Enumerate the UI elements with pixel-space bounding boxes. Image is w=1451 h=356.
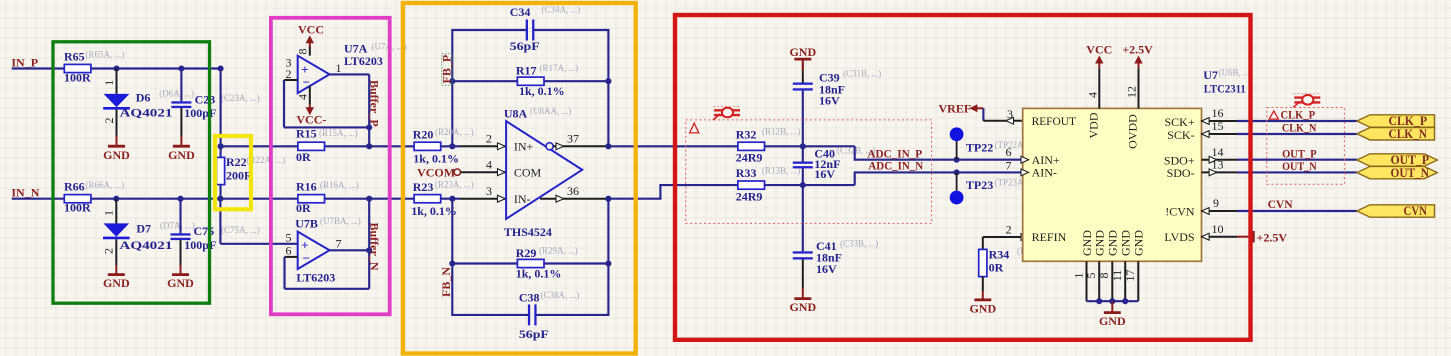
capacitor C40 12nF 16V: [802, 146, 804, 161]
svg-text:8: 8: [296, 49, 310, 55]
svg-text:TP23: TP23: [966, 178, 993, 192]
node junction C40 bottom: [800, 182, 806, 188]
node junction R23/FBN column: [449, 196, 455, 202]
svg-text:(C34A, ...): (C34A, ...): [542, 5, 581, 15]
op-amp U7B LT6203 triangle: [298, 232, 330, 269]
diode D7 AQ4021: [115, 199, 117, 224]
U7A output wire: [330, 73, 370, 75]
svg-text:R65: R65: [64, 49, 85, 63]
capacitor C41 18nF 16V: [802, 185, 804, 251]
dashed blanket CLK: [1267, 108, 1345, 185]
node junction R22/R15 tap: [218, 143, 224, 149]
svg-text:U8A: U8A: [504, 107, 528, 121]
IC U7 LTC2311 body: [1023, 108, 1202, 261]
svg-text:12: 12: [1125, 86, 1139, 98]
svg-text:AQ4021: AQ4021: [119, 238, 172, 252]
dashed blanket ADC: [686, 120, 932, 223]
power VCC U7A: [309, 39, 311, 47]
svg-text:VREF: VREF: [939, 101, 972, 115]
svg-text:100R: 100R: [64, 71, 91, 85]
node junction U7B output: [366, 247, 372, 253]
svg-text:(R29A, ...): (R29A, ...): [539, 246, 578, 256]
node junction IN_P/R22 column: [218, 65, 224, 71]
svg-text:4: 4: [486, 157, 492, 171]
ground for D6: [116, 136, 118, 146]
svg-text:CVN: CVN: [1404, 204, 1428, 218]
node junction U7A out/R15: [366, 143, 372, 149]
node junction FB_N right: [605, 260, 611, 266]
wire R20 to IN+ pin: [441, 145, 460, 147]
svg-text:24R9: 24R9: [736, 190, 763, 204]
U8A output 37 wire: [553, 145, 608, 147]
svg-text:1k, 0.1%: 1k, 0.1%: [519, 84, 565, 98]
port OUT_N: [1357, 166, 1437, 178]
svg-text:(C33B, ...): (C33B, ...): [840, 238, 878, 248]
svg-text:(C23A, ...): (C23A, ...): [221, 93, 260, 103]
svg-text:GND: GND: [1106, 230, 1120, 256]
svg-text:5: 5: [1084, 273, 1098, 279]
ground for C23: [180, 136, 182, 146]
ground for U7: [1111, 301, 1113, 312]
node junction R20/FBP column: [449, 143, 455, 149]
svg-text:CLK_N: CLK_N: [1389, 127, 1428, 141]
svg-text:6: 6: [1006, 145, 1012, 159]
svg-text:8: 8: [1097, 273, 1111, 279]
svg-text:(R16A, ...): (R16A, ...): [320, 180, 359, 190]
svg-text:VCC-: VCC-: [296, 112, 326, 126]
node junction IN_P/C23: [178, 65, 184, 71]
op-amp U7A LT6203 triangle: [298, 56, 330, 93]
wire ADC_IN_P jog: [855, 146, 1023, 159]
svg-text:IN_N: IN_N: [11, 186, 39, 200]
U7 pin 15 SCK-: [1202, 133, 1238, 135]
resistor R22 200R: [216, 157, 224, 184]
capacitor C34 56pF: [526, 20, 528, 41]
svg-text:(R15A, ...): (R15A, ...): [319, 128, 358, 138]
svg-text:56pF: 56pF: [510, 39, 540, 53]
magenta group box: [271, 18, 390, 315]
wire IN_N row: [12, 198, 64, 200]
svg-text:2: 2: [486, 132, 492, 146]
U7 pin 12 OVDD pin: [1138, 68, 1140, 108]
svg-text:GND: GND: [103, 276, 130, 290]
svg-text:OVDD: OVDD: [1126, 114, 1140, 149]
capacitor C75 100pF: [179, 199, 181, 234]
node junction FB_N left: [449, 260, 455, 266]
svg-text:15: 15: [1212, 119, 1224, 133]
svg-text:37: 37: [567, 132, 579, 146]
svg-text:16: 16: [1212, 106, 1224, 120]
port CVN: [1357, 205, 1435, 217]
svg-text:R32: R32: [736, 127, 757, 141]
wire R23 to IN- pin: [441, 198, 460, 200]
svg-text:GND: GND: [1119, 230, 1133, 256]
U8A output 37 bubble: [546, 143, 553, 150]
node junction IN_N/C75: [177, 196, 183, 202]
svg-text:C23: C23: [195, 92, 216, 106]
U8A pin 4 arrow: [498, 169, 506, 176]
test point TP22: [954, 157, 960, 163]
svg-text:16V: 16V: [814, 167, 835, 181]
svg-text:+2.5V: +2.5V: [1257, 231, 1288, 245]
wire R33 to C40: [765, 184, 855, 186]
diff pair directive icon CLK: [1293, 94, 1321, 108]
svg-text:2: 2: [1006, 222, 1012, 236]
svg-text:−: −: [303, 250, 310, 265]
yellow group box: [215, 136, 251, 209]
red group box: [675, 15, 1251, 340]
svg-text:+2.5V: +2.5V: [1122, 43, 1153, 57]
resistor R17 1k: [452, 80, 517, 82]
U7 pin 7 arrow: [1021, 169, 1029, 176]
U7 pin 3 REFOUT arrow: [1006, 117, 1014, 124]
wire ADC_IN_N jog: [855, 172, 1023, 185]
U7B output wire: [330, 249, 370, 251]
svg-text:LT6203: LT6203: [296, 270, 335, 284]
svg-text:VCC: VCC: [298, 22, 324, 36]
svg-text:0R: 0R: [989, 260, 1004, 274]
red triangle marker ADC: [690, 123, 699, 133]
svg-text:LTC2311: LTC2311: [1204, 81, 1246, 95]
svg-text:0R: 0R: [296, 150, 311, 164]
svg-text:VCOM: VCOM: [417, 165, 455, 179]
node junction out36: [605, 196, 611, 202]
red triangle marker CLK: [1269, 111, 1278, 119]
ground for R34: [982, 291, 984, 300]
svg-text:1k, 0.1%: 1k, 0.1%: [411, 204, 457, 218]
wire R15 to R20: [369, 145, 414, 147]
svg-text:(R17A, ...): (R17A, ...): [540, 63, 579, 73]
svg-text:GND: GND: [1093, 230, 1107, 256]
U7 pin 16 SCK+: [1202, 120, 1238, 122]
node junction C40 top: [800, 143, 806, 149]
port CLK_P: [1357, 115, 1435, 127]
svg-text:3: 3: [1007, 107, 1013, 121]
svg-text:SDO-: SDO-: [1167, 166, 1195, 180]
node junction FB_P right: [605, 78, 611, 84]
svg-text:REFIN: REFIN: [1032, 230, 1067, 244]
wire C34 top row: [452, 30, 608, 146]
svg-text:R29: R29: [516, 246, 537, 260]
svg-text:3: 3: [486, 184, 492, 198]
node junction IN_N/D7: [113, 196, 119, 202]
svg-text:0R: 0R: [296, 201, 311, 215]
wire R15 tap: [221, 145, 298, 147]
port OUT_P: [1357, 154, 1437, 166]
svg-text:100R: 100R: [64, 201, 91, 215]
svg-text:1: 1: [102, 210, 116, 216]
svg-text:GND: GND: [168, 148, 195, 162]
svg-text:(D7A, ...): (D7A, ...): [160, 221, 195, 231]
svg-text:(R65A, ...): (R65A, ...): [86, 50, 125, 60]
svg-text:VCC: VCC: [1086, 43, 1112, 57]
svg-text:IN+: IN+: [514, 140, 534, 154]
ground for C75: [180, 265, 182, 275]
ground below C41: [802, 288, 804, 299]
svg-text:LVDS: LVDS: [1164, 230, 1194, 244]
node junction FB_P left: [449, 78, 455, 84]
ground above C39: [802, 59, 804, 70]
wire out36 step: [608, 185, 738, 199]
svg-text:CLK_P: CLK_P: [1281, 107, 1316, 121]
U7B pin 6 wire + feedback: [285, 256, 298, 258]
svg-text:100pF: 100pF: [184, 238, 216, 252]
op-amp U8A THS4524 triangle: [506, 121, 582, 219]
U7 bottom GND pins: [1086, 261, 1088, 301]
svg-text:10: 10: [1212, 222, 1224, 236]
U7 pin 4 VDD pin: [1098, 68, 1100, 108]
svg-text:11: 11: [1110, 270, 1124, 282]
svg-text:VDD: VDD: [1086, 112, 1100, 138]
svg-text:SCK-: SCK-: [1167, 128, 1194, 142]
U7A pin 8 power pin: [309, 47, 311, 56]
svg-text:D6: D6: [136, 90, 151, 104]
capacitor C38 56pF: [528, 304, 530, 325]
power VCC at U7: [1098, 60, 1100, 69]
svg-text:(U8AA, ...): (U8AA, ...): [530, 106, 571, 116]
svg-text:(R23A, ...): (R23A, ...): [435, 179, 474, 189]
net label FB_P: [442, 54, 453, 86]
svg-text:6: 6: [286, 244, 292, 258]
svg-text:(C38A, ...): (C38A, ...): [541, 290, 580, 300]
svg-text:16V: 16V: [819, 94, 840, 108]
resistor R34 0R: [983, 236, 1023, 238]
svg-text:GND: GND: [789, 45, 816, 59]
svg-text:R66: R66: [64, 180, 85, 194]
svg-text:GND: GND: [969, 302, 996, 316]
svg-text:4: 4: [296, 94, 310, 100]
svg-text:R16: R16: [296, 180, 317, 194]
port CLK_N: [1357, 128, 1435, 140]
U7 pin 2 REFIN arrow: [1021, 234, 1029, 241]
U7 pin 6 arrow: [1021, 156, 1029, 163]
U7 pin 14 SDO+: [1202, 159, 1238, 161]
svg-text:AQ4021: AQ4021: [120, 106, 173, 120]
resistor R16 0R: [298, 195, 325, 203]
svg-text:U7B: U7B: [295, 217, 318, 231]
svg-text:Buffer_N: Buffer_N: [367, 223, 381, 271]
resistor R15 0R: [325, 145, 369, 147]
svg-text:TP22: TP22: [966, 140, 993, 154]
svg-text:LT6203: LT6203: [344, 54, 383, 68]
svg-text:THS4524: THS4524: [504, 225, 552, 239]
resistor R65: [64, 64, 91, 72]
svg-text:R22: R22: [226, 155, 247, 169]
svg-text:1k, 0.1%: 1k, 0.1%: [516, 267, 562, 281]
capacitor C23 100pF: [180, 69, 182, 102]
test point TP23: [954, 169, 960, 175]
svg-text:CLK_N: CLK_N: [1282, 120, 1317, 134]
diode D6 AQ4021: [116, 69, 118, 94]
svg-text:1k, 0.1%: 1k, 0.1%: [413, 152, 459, 166]
node junction IN_P/D6: [113, 65, 119, 71]
svg-text:(R66A, ...): (R66A, ...): [86, 180, 125, 190]
wire R32 to C40: [765, 145, 855, 147]
U7A pin 2 wire + feedback: [284, 79, 298, 81]
resistor R66: [64, 195, 91, 203]
node junction R16/U7B out column: [366, 196, 372, 202]
green group box: [53, 42, 210, 303]
svg-text:36: 36: [567, 184, 579, 198]
svg-text:OUT_N: OUT_N: [1282, 159, 1317, 173]
node junction U7A feedback: [366, 124, 372, 130]
svg-text:U7: U7: [1203, 68, 1218, 82]
svg-text:9: 9: [1213, 196, 1219, 210]
wire R22 column bottom: [219, 185, 221, 199]
svg-text:D7: D7: [136, 221, 151, 235]
U7 pin 9 !CVN: [1202, 210, 1238, 212]
svg-text:R15: R15: [296, 127, 317, 141]
svg-text:24R9: 24R9: [736, 151, 763, 165]
svg-text:C34: C34: [510, 5, 531, 19]
svg-text:!CVN: !CVN: [1165, 205, 1195, 219]
svg-text:CVN: CVN: [1268, 197, 1293, 211]
svg-text:IN_P: IN_P: [11, 55, 38, 69]
svg-text:IN-: IN-: [514, 192, 531, 206]
svg-text:(C75A, ...): (C75A, ...): [221, 225, 260, 235]
U7B pin 5 wire: [219, 199, 221, 244]
svg-text:ADC_IN_N: ADC_IN_N: [868, 158, 923, 172]
svg-text:(U7BA, ...): (U7BA, ...): [320, 216, 361, 226]
resistor R32 24R9: [738, 142, 765, 150]
resistor R33 24R9: [738, 181, 765, 189]
svg-text:2: 2: [102, 118, 116, 124]
svg-text:GND: GND: [789, 300, 816, 314]
svg-text:1: 1: [336, 61, 342, 75]
svg-text:13: 13: [1212, 158, 1224, 172]
wire out37 to R32: [608, 145, 738, 147]
svg-text:GND: GND: [1132, 230, 1146, 256]
svg-text:16V: 16V: [816, 262, 837, 276]
svg-text:C38: C38: [519, 291, 540, 305]
svg-text:(C31B, ...): (C31B, ...): [843, 69, 881, 79]
svg-text:Buffer_P: Buffer_P: [367, 80, 381, 127]
power VCC- U7A: [309, 104, 311, 111]
svg-text:R17: R17: [516, 64, 537, 78]
node junction GND bus 3: [1122, 298, 1128, 304]
U8A output 36 wire: [540, 198, 608, 200]
diff pair directive icon ADC: [713, 107, 741, 121]
resistor R23 1k: [414, 195, 441, 203]
svg-text:100pF: 100pF: [184, 106, 216, 120]
svg-text:(R20A, ...): (R20A, ...): [435, 127, 474, 137]
wire FB_N columns: [452, 199, 608, 315]
svg-text:17: 17: [1123, 270, 1137, 282]
svg-text:FB_N: FB_N: [439, 267, 453, 297]
svg-text:(U6B, ...): (U6B, ...): [1219, 68, 1253, 78]
node junction IN_N/R22/U7B: [217, 196, 223, 202]
orange group box: [403, 3, 636, 354]
svg-text:R23: R23: [413, 180, 434, 194]
U8A pin 3 arrow: [498, 195, 506, 202]
ground for D7: [115, 265, 117, 275]
U7A pin 4 power pin: [309, 86, 311, 104]
svg-text:7: 7: [1006, 159, 1012, 173]
svg-text:4: 4: [1086, 92, 1100, 98]
svg-text:1: 1: [102, 80, 116, 86]
svg-text:7: 7: [336, 236, 342, 250]
svg-text:COM: COM: [514, 166, 542, 180]
power +2.5V at U7: [1138, 60, 1140, 69]
svg-text:AIN-: AIN-: [1032, 166, 1057, 180]
svg-text:REFOUT: REFOUT: [1032, 114, 1077, 128]
svg-text:GND: GND: [103, 148, 130, 162]
resistor R20 1k: [414, 142, 441, 150]
svg-text:OUT_N: OUT_N: [1391, 166, 1430, 180]
power +2.5V at pin 10: [1252, 231, 1254, 242]
svg-text:R33: R33: [736, 166, 757, 180]
svg-text:5: 5: [286, 231, 292, 245]
node junction GND bus 2: [1109, 298, 1115, 304]
node junction GND bus 1: [1096, 298, 1102, 304]
U7 pin 10 LVDS: [1202, 236, 1238, 238]
svg-text:R20: R20: [413, 128, 434, 142]
capacitor C39 18nF 16V: [802, 59, 804, 70]
svg-text:2: 2: [286, 67, 292, 81]
svg-text:(R12B, ...): (R12B, ...): [762, 126, 800, 136]
wire R22 column top: [220, 69, 222, 158]
U8A pin 2 arrow: [498, 143, 506, 150]
svg-text:FB_P: FB_P: [440, 55, 454, 84]
resistor R29 1k: [452, 262, 517, 264]
svg-text:56pF: 56pF: [519, 327, 549, 341]
U7 pin 13 SDO-: [1202, 171, 1238, 173]
wire U7B output column: [368, 199, 370, 289]
wire VCOM to COM pin: [461, 171, 507, 173]
svg-text:2: 2: [102, 248, 116, 254]
node junction out37: [605, 143, 611, 149]
svg-text:(D6A, ...): (D6A, ...): [159, 89, 194, 99]
svg-text:GND: GND: [167, 276, 194, 290]
svg-text:GND: GND: [1099, 314, 1126, 328]
wire IN_P row: [12, 67, 64, 69]
